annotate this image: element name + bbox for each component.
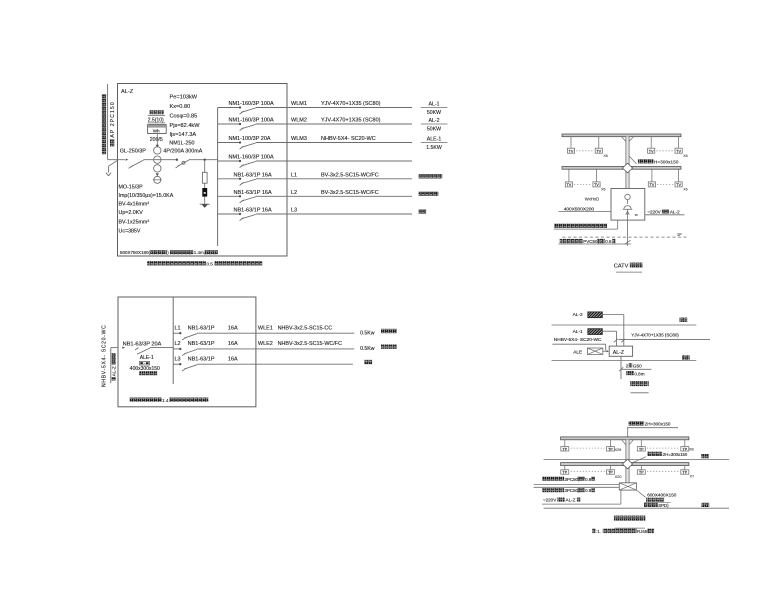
svg-text:0.5Kw: 0.5Kw (360, 346, 375, 352)
svg-text:BV-3x2.5-SC15-WC/FC: BV-3x2.5-SC15-WC/FC (321, 190, 379, 196)
svg-text:WLM2: WLM2 (291, 118, 307, 124)
wire row 1 out (256, 107, 412, 109)
CATV trunk tray 1F (562, 167, 681, 170)
svg-text:0.5: 0.5 (206, 262, 213, 267)
svg-text:PVC50,: PVC50, (583, 239, 599, 244)
wire AL-2 to AL-Z (602, 315, 624, 347)
ground tap wire (109, 160, 118, 172)
CATV riser tray (622, 137, 633, 189)
svg-text:L1: L1 (291, 172, 297, 178)
svg-text:L3: L3 (175, 356, 181, 362)
TV outlet stub floor2 #2 (598, 137, 600, 149)
feeder wire L1 from bus (173, 332, 180, 334)
dotted continuation floor1 right (657, 184, 673, 186)
TV outlet box floor1 #1 (565, 182, 572, 187)
dotted continuation floor1 left (574, 184, 591, 186)
svg-text:TP: TP (608, 447, 613, 451)
svg-text:0.8: 0.8 (585, 488, 592, 493)
label burial depth 0.8m (626, 371, 644, 376)
label MDF WxHxD (cjk) (644, 498, 670, 503)
TP outlet stub floor2 #4 (684, 440, 686, 447)
svg-text:X6: X6 (601, 188, 605, 192)
svg-text:2: 2 (626, 363, 629, 368)
MDF crossed box (619, 483, 636, 490)
label 2.5(10) (148, 118, 166, 124)
SPD branch wire upper (204, 160, 206, 173)
load label ALE-1 (421, 137, 448, 151)
svg-text:16A: 16A (228, 341, 238, 347)
box AL-Z (riser diagram) (609, 346, 632, 356)
svg-text:500X750X180(: 500X750X180( (120, 250, 151, 255)
dotted TP continuation floor1 left (571, 470, 605, 472)
feeder wire row 6 from bus (218, 195, 240, 197)
panel size text 500X750X180 (120, 250, 218, 255)
feeder wire row 2 from bus (218, 123, 240, 125)
label breaker L2 (188, 341, 238, 347)
TP outlet stub floor1 #2 (610, 466, 612, 470)
wire YJV feeder (614, 339, 710, 343)
TV outlet stub floor2 #4 (678, 137, 680, 149)
floor line 2F phone (544, 459, 730, 461)
svg-text:SPD): SPD) (658, 503, 669, 508)
svg-text:TV: TV (596, 149, 601, 153)
mounting note lower panel (130, 398, 209, 403)
svg-text:200/5: 200/5 (150, 137, 163, 143)
TP outlet box floor2 #3 (637, 447, 645, 452)
svg-text:NHBV-5X4- SC20-WC: NHBV-5X4- SC20-WC (554, 337, 602, 343)
wire fiber cable entrance (534, 486, 620, 488)
svg-text:NB1-63/3P 20A: NB1-63/3P 20A (123, 341, 162, 347)
feeder wire L3 from bus (173, 363, 180, 365)
ground arrow (106, 173, 109, 176)
dotted continuation floor2 left (576, 150, 593, 152)
label 2F phone (cjk) (701, 454, 709, 458)
label from AL-Z panel (rotated) (112, 353, 117, 380)
SPD parameters text (119, 185, 174, 235)
svg-text:TP: TP (563, 471, 568, 475)
TV outlet stub floor2 #1 (570, 137, 572, 149)
floor line 1F (riser diagram) (552, 360, 697, 362)
TV outlet box floor1 #2 (593, 182, 600, 187)
breaker QL1 NB1-63/1P (182, 334, 197, 340)
svg-text:w: w (635, 212, 638, 217)
wire incoming riser (107, 84, 109, 160)
svg-text:AL-2: AL-2 (429, 118, 440, 124)
label phone cable 3PC50 (542, 477, 595, 482)
svg-text:TP: TP (563, 447, 568, 451)
svg-text:AL-2: AL-2 (670, 209, 680, 214)
label ~220V power from AL-Z (542, 490, 621, 504)
load name L2 (cjk) (381, 345, 397, 349)
breaker Q4 NM1-160/3P (240, 161, 256, 167)
CATV distribution box (611, 189, 645, 221)
svg-text:YJV-4X70+1X35 (SC80): YJV-4X70+1X35 (SC80) (321, 118, 381, 124)
svg-text:YJV-4X70+1X35 (SC80): YJV-4X70+1X35 (SC80) (321, 101, 381, 107)
svg-text:CATV: CATV (614, 263, 629, 269)
svg-text:Wh: Wh (153, 128, 160, 133)
wire to CT (144, 159, 177, 161)
svg-text:X6: X6 (603, 154, 607, 158)
TV outlet box floor2 #2 (595, 148, 602, 153)
wire L2 out (197, 348, 354, 350)
svg-text:NB1-63/1P 16A: NB1-63/1P 16A (234, 208, 272, 214)
svg-text:L2: L2 (175, 341, 181, 347)
svg-text:1.4: 1.4 (162, 398, 169, 403)
TP outlet box floor1 #1 (561, 470, 569, 475)
svg-text:TP: TP (608, 471, 613, 475)
node L3 (179, 363, 181, 365)
svg-text:NM1-100/3P 20A: NM1-100/3P 20A (229, 136, 271, 142)
label MDF SPD note (644, 503, 670, 508)
svg-text:TV: TV (594, 183, 599, 187)
svg-text:16A: 16A (228, 356, 238, 362)
wire row 7 out (256, 213, 412, 215)
svg-text:0.8m: 0.8m (634, 371, 644, 376)
breaker Q2 NM1-160/3P (240, 124, 256, 130)
TP outlet stub floor2 #1 (564, 440, 566, 447)
TP outlet box floor2 #2 (607, 447, 615, 452)
svg-text:1.4m,: 1.4m, (194, 250, 205, 255)
svg-text:16A: 16A (228, 325, 238, 331)
TP outlet box floor1 #3 (637, 470, 645, 475)
TP outlet box floor1 #4 (681, 470, 689, 475)
svg-text:AL-2: AL-2 (573, 312, 583, 318)
svg-text:NM1-160/3P 100A: NM1-160/3P 100A (229, 101, 274, 107)
svg-text:0.8: 0.8 (585, 477, 592, 482)
breaker QL3 NB1-63/1P (182, 365, 197, 371)
TV outlet box floor2 #4 (675, 148, 682, 153)
label breaker L3 (188, 356, 238, 362)
wire ALE to AL-Z with arrow (603, 350, 609, 352)
svg-text:BV-1x25mm²: BV-1x25mm² (119, 220, 150, 226)
svg-text:~220V: ~220V (647, 209, 661, 214)
floor line 1F phone (544, 507, 730, 509)
TP outlet box floor1 #2 (607, 470, 615, 475)
CATV riser crossing diamond (622, 163, 632, 173)
dotted TP continuation floor2 left (571, 447, 605, 449)
svg-text::1.: :1. (596, 529, 601, 534)
svg-text:H=300x150: H=300x150 (654, 160, 679, 165)
svg-text:NB1-63/1P 16A: NB1-63/1P 16A (234, 190, 272, 196)
load label row 7 (cjk) (419, 209, 427, 213)
load parameters text (170, 95, 201, 139)
label ~220V from AL-2 (645, 209, 685, 214)
svg-text:AL-Z: AL-Z (566, 497, 576, 502)
current transformer stack (153, 134, 162, 184)
TV outlet box floor1 #3 (648, 182, 655, 187)
CATV trunk tray 2F (562, 134, 681, 137)
label 2xG50 (622, 363, 652, 369)
wire NHBV to ALE (552, 344, 605, 350)
svg-text:600X400X150: 600X400X150 (647, 492, 677, 497)
svg-text:Pe=103kW: Pe=103kW (170, 95, 198, 101)
svg-text:WLE2: WLE2 (258, 341, 273, 347)
svg-text:Uc=385V: Uc=385V (119, 229, 141, 235)
SPD earth arrow (200, 203, 210, 205)
TV outlet stub floor1 #3 (651, 169, 653, 182)
wire phone cable entrance (534, 484, 620, 486)
phone riser tray (622, 440, 633, 483)
wire row 2 out (256, 123, 412, 125)
TP outlet stub floor1 #3 (640, 466, 642, 470)
phone riser crossing diamond (622, 459, 632, 469)
svg-text:Up=2.0KV: Up=2.0KV (119, 210, 144, 216)
load label row 5 (cjk) (419, 174, 443, 178)
breaker Q3 NM1-100/3P (240, 143, 256, 149)
svg-text:ALE-1: ALE-1 (427, 137, 442, 143)
leader to floor-box note (554, 220, 618, 229)
node row 6 (239, 195, 241, 197)
svg-text:NB1-63/1P 16A: NB1-63/1P 16A (234, 172, 272, 178)
node row 2 (239, 123, 241, 125)
panel ALE-1 enclosure (118, 297, 256, 407)
svg-text:Imp(10/350μs)=15.0KA: Imp(10/350μs)=15.0KA (119, 193, 174, 199)
svg-text:NHBV-5X4- SC20-WC: NHBV-5X4- SC20-WC (321, 136, 376, 142)
svg-text:~220V: ~220V (543, 497, 557, 502)
node L1 (179, 332, 181, 334)
TV outlet box floor2 #3 (648, 148, 655, 153)
label WxHxD (cjk) (139, 371, 157, 375)
wire incoming horizontal (108, 159, 125, 161)
breaker Q6 NB1-63/1P (240, 197, 256, 203)
svg-text:Cosφ=0.85: Cosφ=0.85 (170, 113, 198, 119)
svg-text:X29: X29 (615, 448, 622, 452)
phone trunk tray 2F (561, 437, 689, 440)
svg-text:Ijs=147.3A: Ijs=147.3A (170, 132, 197, 138)
note RJ45 modules (592, 529, 654, 534)
wire L1 out (197, 332, 354, 334)
TV outlet stub floor1 #1 (568, 169, 570, 182)
load label row 6 (cjk) (419, 192, 439, 196)
svg-text:AL-1: AL-1 (429, 102, 440, 108)
note below panel (147, 261, 262, 266)
svg-text:TV: TV (676, 183, 681, 187)
surge arrester MO-15 (202, 188, 207, 197)
load name L1 (cjk) (381, 329, 397, 333)
TV outlet stub floor1 #2 (596, 169, 598, 182)
note floor distribution boxes (cjk) (554, 224, 607, 228)
label cable source 22# building (rotated) (102, 94, 106, 154)
label 2F (cjk) (680, 318, 688, 322)
svg-text:AL-1: AL-1 (573, 329, 583, 335)
TP outlet box floor2 #1 (561, 447, 569, 452)
svg-text:X7: X7 (690, 474, 695, 478)
svg-text:NHBV-3x2.5-SC15-CC: NHBV-3x2.5-SC15-CC (278, 325, 333, 331)
node L2 (179, 348, 181, 350)
CATV amplifier symbol (623, 194, 638, 217)
leader MDF label (636, 490, 645, 497)
panel AL-Z enclosure (118, 84, 288, 257)
wire breaker to bus (190, 159, 217, 161)
svg-text:X6: X6 (683, 188, 687, 192)
TP outlet stub floor2 #3 (640, 440, 642, 447)
panel AL-1 (hatched) (588, 329, 603, 335)
svg-text:0.6: 0.6 (605, 239, 612, 244)
node row 5 (239, 178, 241, 180)
svg-text:RJ45: RJ45 (637, 529, 648, 534)
TP outlet box floor2 #4 (681, 447, 689, 452)
feeder wire row 7 from bus (218, 213, 240, 215)
svg-text:X20: X20 (615, 475, 622, 479)
svg-text:X8: X8 (689, 447, 694, 451)
svg-text:AL-Z: AL-Z (121, 89, 134, 95)
wire row 5 out (256, 178, 412, 180)
svg-text:TV: TV (566, 183, 571, 187)
svg-text:NM1-160/3P 100A: NM1-160/3P 100A (229, 155, 274, 161)
svg-text:AL-Z: AL-Z (112, 366, 117, 376)
label breaker L1 (188, 325, 238, 331)
svg-text:NB1-63/1P: NB1-63/1P (188, 341, 215, 347)
svg-text:ALE-1: ALE-1 (140, 355, 154, 361)
feeder wire L2 from bus (173, 348, 180, 350)
feeder wire row 5 from bus (218, 178, 240, 180)
CATV feeder drop wire (625, 209, 631, 246)
label fiber cable 3PC50 (542, 488, 595, 493)
feeder wire row 4 from bus (218, 160, 240, 162)
svg-text:BV-4x16mm²: BV-4x16mm² (119, 202, 150, 208)
node row 7 (239, 213, 241, 215)
svg-text:Pjs=82.4kW: Pjs=82.4kW (170, 123, 201, 129)
breaker Q1 NM1-160/3P (240, 108, 256, 114)
breaker Q5 NB1-63/1P (240, 179, 256, 185)
svg-text:WLM1: WLM1 (291, 101, 307, 107)
dotted TP continuation floor2 right (647, 447, 679, 449)
SPD branch node (204, 159, 206, 161)
dotted continuation floor2 right (657, 150, 674, 152)
junction node (176, 159, 178, 161)
title phone/network system diagram (cjk) (614, 516, 646, 529)
svg-text:MO-15/3P: MO-15/3P (119, 185, 144, 191)
wire AL-1 to AL-Z (602, 331, 616, 346)
breaker QL2 NB1-63/1P (182, 349, 197, 355)
svg-text:2H=300x150: 2H=300x150 (645, 422, 671, 427)
svg-text:AP 2PC150: AP 2PC150 (110, 101, 116, 137)
feeder wire row 1 from bus (218, 107, 240, 109)
svg-text:NHBV-3x2.5-SC15-WC/FC: NHBV-3x2.5-SC15-WC/FC (278, 341, 343, 347)
label 1F phone (cjk) (702, 503, 710, 507)
TV outlet box floor1 #4 (675, 182, 682, 187)
wire L3 out (197, 363, 353, 365)
svg-text:2H=300x150: 2H=300x150 (663, 452, 688, 457)
kWh meter Wh box (148, 125, 167, 134)
svg-text:G50: G50 (633, 363, 642, 368)
bus bar (217, 108, 219, 247)
TV outlet stub floor2 #3 (650, 137, 652, 149)
svg-text:YJV-4X70+1X35 (SC80): YJV-4X70+1X35 (SC80) (631, 333, 679, 338)
breaker incoming NB1-63/3P (122, 347, 150, 355)
label top cable tray 2H=300x150 (627, 421, 678, 437)
switch GL-250/3P (126, 159, 144, 169)
label 1F (cjk) (682, 355, 690, 359)
svg-text:NB1-63/1P: NB1-63/1P (188, 325, 215, 331)
TP outlet stub floor1 #4 (684, 466, 686, 470)
label cable AP 2PC150 (rotated) (110, 101, 116, 146)
load label AL-2 (421, 118, 448, 132)
svg-text:TV: TV (649, 183, 654, 187)
svg-text:Kx=0.80: Kx=0.80 (170, 104, 191, 110)
svg-text:WLM3: WLM3 (291, 136, 307, 142)
svg-text:4P/200A 300mA: 4P/200A 300mA (163, 149, 202, 155)
svg-text:TV: TV (649, 149, 654, 153)
wire row 3 out (256, 142, 412, 144)
label NHBV-5X4- SC20-WC (rotated) (101, 325, 107, 387)
meter symbol ALE-1 (139, 361, 149, 365)
svg-text:TP: TP (683, 447, 688, 451)
svg-text:NHBV-5X4- SC20-WC: NHBV-5X4- SC20-WC (101, 325, 107, 387)
SPD branch wire lower (204, 197, 206, 204)
svg-text:TV: TV (676, 149, 681, 153)
breaker Q7 NB1-63/1P (240, 214, 256, 220)
svg-text:3PC50,: 3PC50, (565, 488, 580, 493)
fuse F1 (202, 172, 207, 183)
wire incoming from AL-Z (111, 348, 118, 384)
label mid cable tray 2H=300x150 (633, 452, 688, 463)
svg-text:1F: 1F (677, 232, 682, 237)
svg-text:0.5Kw: 0.5Kw (360, 330, 375, 336)
svg-text:L2: L2 (291, 190, 297, 196)
svg-text:TP: TP (683, 471, 688, 475)
svg-text:WxHxD: WxHxD (585, 196, 600, 201)
svg-text:TP: TP (639, 471, 644, 475)
label 400X500X200 (558, 206, 611, 212)
svg-text:NM1L-250: NM1L-250 (169, 141, 194, 147)
svg-text:TP: TP (639, 447, 644, 451)
wire row 6 out (256, 195, 412, 197)
main breaker NM1L-250 4P/200A (176, 159, 191, 168)
TP outlet stub floor1 #1 (564, 466, 566, 470)
label cable tray H=300x150 (629, 156, 679, 164)
title CATV system diagram (614, 263, 643, 273)
meter label 3-phase (148, 110, 166, 115)
svg-text:X6: X6 (683, 154, 687, 158)
TV outlet stub floor1 #4 (678, 169, 680, 182)
panel AL-2 (hatched) (588, 312, 603, 318)
wire row 4 out (256, 160, 412, 162)
wire to bus lower panel (150, 347, 173, 349)
load name L3 spare (cjk) (365, 360, 373, 364)
TV outlet box floor2 #1 (567, 148, 574, 153)
SPD branch wire mid (204, 183, 206, 188)
bus bar lower panel (172, 298, 174, 385)
svg-text:NM1-160/3P 100A: NM1-160/3P 100A (229, 118, 274, 124)
node row 1 (239, 106, 241, 108)
title riser diagram (cjk) (630, 381, 649, 393)
floor dashed line 1F CATV (562, 236, 688, 238)
svg-text:L1: L1 (175, 325, 181, 331)
wire AL-Z service entrance (619, 356, 623, 379)
box ALE (crossed) (587, 348, 602, 354)
svg-text:AL-Z: AL-Z (613, 350, 624, 356)
svg-text:L3: L3 (291, 208, 297, 214)
load label AL-1 (421, 102, 448, 116)
svg-text:1.5KW: 1.5KW (426, 145, 442, 151)
svg-text:TV: TV (569, 149, 574, 153)
phone trunk tray 1F (561, 463, 689, 466)
svg-text:NB1-63/1P: NB1-63/1P (188, 356, 215, 362)
svg-text:ALE: ALE (573, 349, 582, 355)
floor line 2F (riser diagram) (552, 324, 697, 326)
TP outlet stub floor2 #2 (610, 440, 612, 447)
svg-text:WLE1: WLE1 (258, 325, 273, 331)
svg-text:GL-250/3P: GL-250/3P (120, 149, 146, 155)
svg-text:BV-3x2.5-SC15-WC/FC: BV-3x2.5-SC15-WC/FC (321, 172, 379, 178)
node row 3 (239, 141, 241, 143)
svg-text:50KW: 50KW (427, 127, 441, 133)
svg-text:50KW: 50KW (427, 110, 441, 116)
label CATV service entrance (558, 239, 630, 244)
feeder wire row 3 from bus (218, 142, 240, 144)
dotted TP continuation floor1 right (647, 470, 679, 472)
